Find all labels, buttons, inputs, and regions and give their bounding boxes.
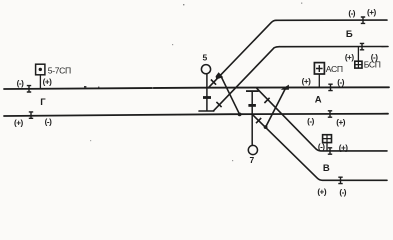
joint J4 on second upper horizontal xyxy=(360,43,364,49)
component box БСП (relay end crossed box) xyxy=(355,47,362,68)
joint J3 on track B xyxy=(361,17,365,23)
svg-text:(+): (+) xyxy=(336,118,346,127)
svg-text:Г: Г xyxy=(40,97,46,108)
signal 5 (dwarf signal: circle, mast, crossbar) xyxy=(201,65,211,111)
signal 7 (dwarf signal: top bar, mast, crossbar, circle) xyxy=(246,91,259,155)
svg-text:(+): (+) xyxy=(339,143,349,152)
component crossed box at В line xyxy=(323,135,332,151)
node junction dot on d2 xyxy=(264,125,268,129)
svg-text:(+): (+) xyxy=(367,8,377,17)
svg-text:(+): (+) xyxy=(302,77,312,86)
joint J7 on middle right horizontal xyxy=(328,148,332,154)
svg-text:В: В xyxy=(323,163,330,174)
wire second upper horizontal (right) xyxy=(279,46,388,48)
wire diagonal d3 branch to track 1 xyxy=(266,88,286,127)
svg-text:(-): (-) xyxy=(339,188,346,197)
node junction dot on track 2 (L3 end) xyxy=(238,113,242,117)
joint J6 on track 2 right xyxy=(328,111,332,117)
wire track 2 (main lower horizontal) xyxy=(4,114,388,116)
svg-text:(+): (+) xyxy=(345,53,355,62)
component box АСП (feed end with plus) xyxy=(314,63,324,88)
svg-text:АСП: АСП xyxy=(326,64,343,74)
svg-text:(-): (-) xyxy=(348,9,355,18)
wire diagonal d1 from track 1 to middle right horizontal xyxy=(257,89,387,151)
node arrow on track 1 at d3 xyxy=(281,85,289,90)
node arrow on L1 xyxy=(216,72,224,79)
component track box 5-7СП (feed box with dot) xyxy=(36,64,45,88)
svg-text:7: 7 xyxy=(250,155,255,165)
wire track B horizontal (top right, section Б) xyxy=(276,19,387,21)
svg-text:А: А xyxy=(315,94,322,105)
svg-text:(-): (-) xyxy=(307,117,314,126)
svg-text:(-): (-) xyxy=(371,53,378,62)
wire track 1 (main upper horizontal) xyxy=(4,87,389,89)
svg-text:(-): (-) xyxy=(318,143,325,152)
svg-text:(+): (+) xyxy=(14,118,24,127)
svg-text:5: 5 xyxy=(203,53,208,63)
joint J5 on track 1 right xyxy=(328,84,332,90)
wire diagonal L2 from base bar to second upper horizontal xyxy=(214,47,280,111)
svg-text:(-): (-) xyxy=(17,79,24,88)
wire diagonal L1 from track 1 to track B xyxy=(208,20,276,88)
joint tick T5 on d2 xyxy=(256,118,261,123)
svg-text:(+): (+) xyxy=(43,78,53,87)
svg-text:(-): (-) xyxy=(45,118,52,127)
joint J8 on bottom right horizontal xyxy=(338,177,342,183)
wire diagonal d2 from track 2 to bottom right horizontal (В) xyxy=(253,115,387,181)
svg-text:(-): (-) xyxy=(337,78,344,87)
insulated joints (I symbols) xyxy=(27,17,365,184)
joint J1 on track 1 left xyxy=(27,86,31,92)
joint J2 on track 2 left xyxy=(29,112,33,118)
joint tick T1 on L1 xyxy=(211,80,216,85)
svg-text:Б: Б xyxy=(346,29,353,40)
wire base bar under signal 5 xyxy=(199,110,214,112)
svg-text:(+): (+) xyxy=(317,187,327,196)
joint ticks on diagonals xyxy=(211,80,270,124)
joint tick T2 on L2 xyxy=(216,102,221,107)
speckles from scan xyxy=(84,3,302,162)
svg-text:5-7СП: 5-7СП xyxy=(48,65,71,75)
wire diagonal L3 branch xyxy=(220,75,239,114)
joint tick T4 on d1 xyxy=(264,98,269,103)
